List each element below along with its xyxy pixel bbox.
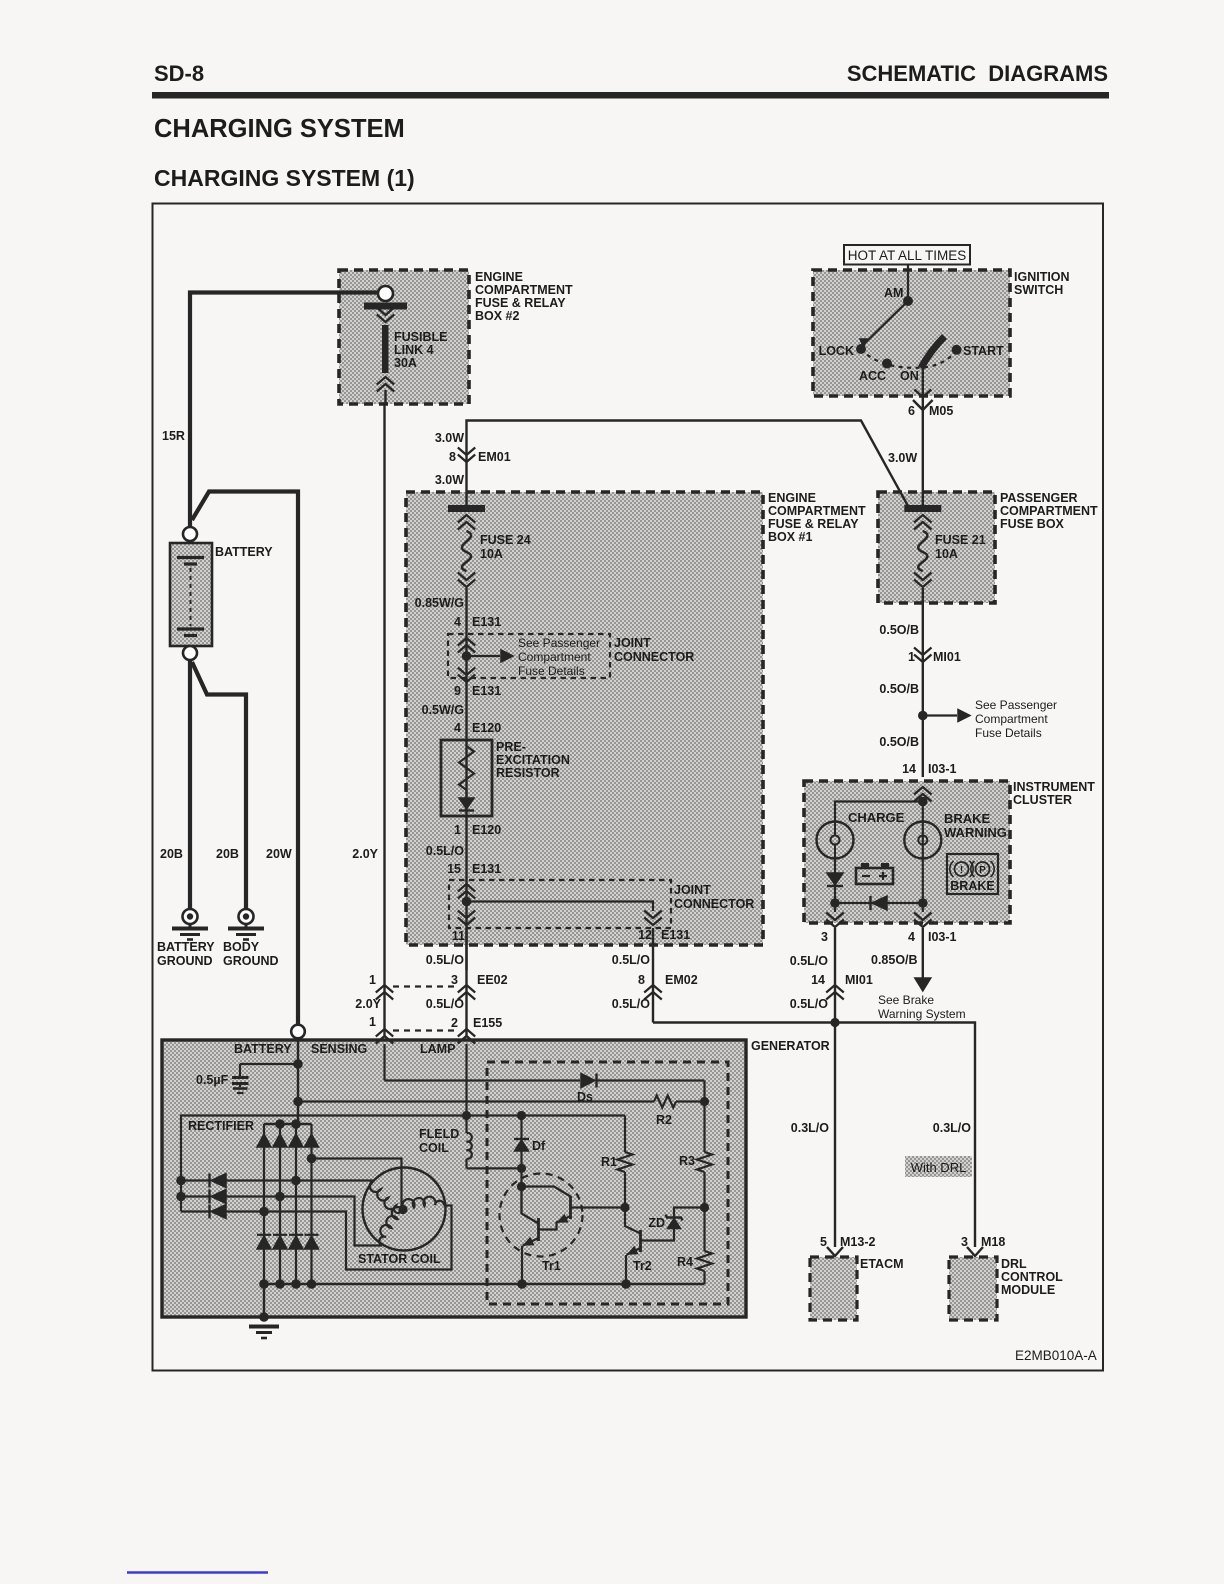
rectifier column 4 bbox=[310, 1124, 312, 1284]
svg-text:12: 12 bbox=[638, 928, 652, 942]
passenger compartment fuse box bbox=[878, 492, 995, 603]
svg-text:0.3L/O: 0.3L/O bbox=[791, 1121, 829, 1135]
ignition switch AM terminal bbox=[884, 286, 913, 306]
transistor Tr1 darlington bbox=[500, 1174, 626, 1285]
svg-text:CHARGING SYSTEM: CHARGING SYSTEM bbox=[154, 115, 405, 143]
node R3 R4 ZD bbox=[700, 1203, 709, 1212]
svg-text:COMPARTMENT: COMPARTMENT bbox=[475, 283, 573, 297]
svg-text:ZD: ZD bbox=[648, 1216, 665, 1230]
rectifier trio diodes bbox=[176, 1174, 226, 1219]
svg-text:0.5L/O: 0.5L/O bbox=[426, 997, 464, 1011]
wire label 2.0Y mid bbox=[352, 847, 378, 861]
svg-text:CONNECTOR: CONNECTOR bbox=[674, 897, 754, 911]
svg-text:BATTERY: BATTERY bbox=[157, 940, 215, 954]
svg-text:With DRL: With DRL bbox=[911, 1160, 967, 1175]
svg-text:GROUND: GROUND bbox=[157, 954, 213, 968]
svg-text:R1: R1 bbox=[601, 1155, 617, 1169]
cluster cross diode bbox=[835, 896, 923, 910]
svg-text:E120: E120 bbox=[472, 823, 501, 837]
hot at all times tag bbox=[844, 245, 970, 265]
svg-text:R3: R3 bbox=[679, 1154, 695, 1168]
node Df top bbox=[517, 1111, 526, 1120]
wire R1 top feed bbox=[624, 1116, 626, 1153]
svg-text:PRE-: PRE- bbox=[496, 740, 526, 754]
svg-text:LOCK: LOCK bbox=[819, 344, 854, 358]
wire label 20B body ground bbox=[216, 847, 239, 861]
svg-text:M18: M18 bbox=[981, 1235, 1005, 1249]
wire label 3.0W lower bbox=[435, 473, 464, 487]
connector E131 pin 9 label bbox=[454, 684, 501, 698]
rectifier ground rail bbox=[259, 1279, 704, 1289]
see brake warning arrow bbox=[915, 978, 931, 991]
svg-text:CONTROL: CONTROL bbox=[1001, 1270, 1063, 1284]
generator label bbox=[751, 1039, 830, 1053]
lamp bus junction node bbox=[830, 1018, 839, 1027]
svg-text:EM01: EM01 bbox=[478, 450, 511, 464]
resistor R4 bbox=[697, 1208, 712, 1285]
fuse 21 label bbox=[935, 533, 986, 561]
ETACM box bbox=[810, 1257, 857, 1320]
ignition switch position arc bbox=[861, 349, 957, 368]
svg-text:P: P bbox=[979, 865, 986, 876]
svg-text:BATTERY: BATTERY bbox=[215, 545, 273, 559]
svg-text:0.85O/B: 0.85O/B bbox=[871, 953, 918, 967]
wire label 0.5W/G bbox=[422, 703, 464, 717]
ignition switch START terminal bbox=[952, 344, 1004, 358]
pre-excitation resistor element bbox=[459, 746, 474, 790]
generator lamp entry chevron bbox=[458, 1036, 475, 1117]
fuse box #1 label bbox=[768, 491, 866, 544]
see brake warning note bbox=[878, 993, 966, 1021]
with DRL tag bbox=[905, 1156, 972, 1177]
svg-text:1: 1 bbox=[369, 973, 376, 987]
wire field coil bottom to Tr1 collector bbox=[467, 1164, 527, 1173]
svg-text:HOT AT ALL TIMES: HOT AT ALL TIMES bbox=[848, 248, 967, 263]
schematic frame bbox=[153, 204, 1104, 1371]
svg-text:RECTIFIER: RECTIFIER bbox=[188, 1119, 254, 1133]
DRL control module label bbox=[1001, 1257, 1063, 1297]
svg-text:0.5L/O: 0.5L/O bbox=[790, 954, 828, 968]
svg-text:STATOR COIL: STATOR COIL bbox=[358, 1252, 441, 1266]
wire stator phase 1 bbox=[226, 1179, 374, 1181]
wire pin 11 to EE02 and E155 lamp wire bbox=[465, 928, 467, 1036]
header rule bbox=[152, 92, 1109, 99]
wire label 0.5L/O under MI01 bbox=[790, 997, 828, 1011]
connector E155 dashed link bbox=[393, 1029, 458, 1031]
transistor Tr1 label bbox=[542, 1259, 561, 1273]
svg-text:EE02: EE02 bbox=[477, 973, 508, 987]
wire fusible link output 2.0Y trunk bbox=[383, 404, 385, 1036]
svg-text:2: 2 bbox=[451, 1016, 458, 1030]
svg-text:COMPARTMENT: COMPARTMENT bbox=[768, 504, 866, 518]
svg-text:E155: E155 bbox=[473, 1016, 502, 1030]
svg-text:Ds: Ds bbox=[577, 1090, 593, 1104]
connector E131 pin 15 label bbox=[447, 862, 501, 876]
ignition switch label bbox=[1014, 270, 1070, 297]
body ground G2 bbox=[228, 909, 264, 940]
svg-text:15R: 15R bbox=[162, 429, 185, 443]
wire label 0.3L/O left bbox=[791, 1121, 829, 1135]
engine compartment fuse and relay box #2 bbox=[339, 270, 469, 404]
joint connector 1 label bbox=[614, 636, 694, 664]
node lamp field junction bbox=[462, 1111, 471, 1120]
transistor Tr2 label bbox=[633, 1259, 652, 1273]
connector M05 chevrons bbox=[913, 390, 933, 411]
wire label 0.5O/B 2 bbox=[879, 682, 919, 696]
svg-text:MODULE: MODULE bbox=[1001, 1283, 1055, 1297]
wire label 20B battery ground bbox=[160, 847, 183, 861]
svg-text:SENSING: SENSING bbox=[311, 1042, 367, 1056]
svg-text:BOX #2: BOX #2 bbox=[475, 309, 520, 323]
wire label 0.5L/O above EM02 turn bbox=[612, 997, 650, 1011]
svg-text:COMPARTMENT: COMPARTMENT bbox=[1000, 504, 1098, 518]
svg-text:4: 4 bbox=[454, 615, 461, 629]
fuse 24 10A bbox=[448, 505, 485, 587]
see passenger branch arrow bbox=[927, 710, 970, 722]
wire capacitor to battery line bbox=[240, 1059, 303, 1069]
ignition switch ACC terminal bbox=[859, 359, 892, 384]
svg-text:FUSIBLE: FUSIBLE bbox=[394, 330, 447, 344]
svg-text:0.3L/O: 0.3L/O bbox=[933, 1121, 971, 1135]
fusible link label bbox=[394, 330, 447, 370]
svg-text:FUSE 24: FUSE 24 bbox=[480, 533, 531, 547]
svg-text:See Brake: See Brake bbox=[878, 993, 934, 1007]
svg-text:!: ! bbox=[960, 865, 963, 876]
svg-text:COIL: COIL bbox=[419, 1141, 449, 1155]
svg-text:FUSE & RELAY: FUSE & RELAY bbox=[768, 517, 859, 531]
fuse box #2 terminal circle bbox=[378, 286, 393, 301]
wire label 0.5L/O below E120 bbox=[426, 844, 464, 858]
svg-text:E131: E131 bbox=[661, 928, 690, 942]
svg-text:2.0Y: 2.0Y bbox=[355, 997, 381, 1011]
svg-text:DRL: DRL bbox=[1001, 1257, 1027, 1271]
fusible link 4 30A bbox=[364, 303, 407, 405]
generator box bbox=[162, 1040, 746, 1317]
charge warning lamp bbox=[817, 822, 854, 859]
see passenger compartment note 1 bbox=[518, 636, 600, 678]
capacitor label 0.5uF bbox=[196, 1073, 229, 1087]
connector EM01 chevrons bbox=[458, 448, 475, 463]
charge lamp diode bbox=[827, 859, 843, 902]
diagram code E2MB010A-A bbox=[1015, 1348, 1097, 1363]
cluster exit chevron pin 3 bbox=[826, 903, 844, 927]
svg-text:BRAKE: BRAKE bbox=[950, 879, 994, 893]
joint connector 1 junction node bbox=[462, 651, 472, 661]
wire stator phase 3 bbox=[226, 1206, 452, 1270]
ignition switch LOCK terminal bbox=[819, 344, 866, 358]
pre-excitation diode bbox=[459, 790, 474, 811]
connector EM02 chevron bbox=[644, 985, 662, 1000]
svg-text:9: 9 bbox=[454, 684, 461, 698]
svg-text:E131: E131 bbox=[472, 615, 501, 629]
svg-text:11: 11 bbox=[452, 929, 465, 943]
connector E120 pin 4 label bbox=[454, 721, 501, 735]
brake warning lamp bbox=[904, 822, 941, 859]
svg-text:30A: 30A bbox=[394, 356, 417, 370]
svg-text:0.5O/B: 0.5O/B bbox=[879, 682, 919, 696]
svg-text:R2: R2 bbox=[656, 1113, 672, 1127]
connector EM01 pin 8 label bbox=[449, 450, 511, 464]
pre-excitation resistor label bbox=[496, 740, 570, 780]
svg-text:E131: E131 bbox=[472, 862, 501, 876]
resistor R3 label bbox=[679, 1154, 695, 1168]
wire label 20W bbox=[266, 847, 292, 861]
page number SD-8 bbox=[154, 61, 204, 86]
stator coil bbox=[363, 1168, 446, 1251]
charge lamp label bbox=[848, 810, 905, 825]
capacitor C1 0.5uF bbox=[232, 1064, 249, 1093]
rectifier phase nodes bbox=[259, 1154, 316, 1217]
scan mark bottom left bbox=[127, 1571, 268, 1573]
wire joint connector 2 branch to pin 12 bbox=[470, 902, 653, 912]
svg-text:BATTERY: BATTERY bbox=[234, 1042, 292, 1056]
svg-text:CHARGING SYSTEM (1): CHARGING SYSTEM (1) bbox=[154, 165, 415, 191]
cluster feed node bbox=[918, 797, 928, 807]
brake warning label bbox=[944, 811, 1007, 840]
svg-text:ENGINE: ENGINE bbox=[768, 491, 816, 505]
voltage regulator dashed box bbox=[487, 1062, 728, 1304]
joint connector 1 exit chevron bbox=[458, 668, 475, 683]
field coil bbox=[467, 1116, 472, 1169]
resistor R4 label bbox=[677, 1255, 693, 1269]
rectifier label bbox=[188, 1119, 254, 1133]
wire label 0.85O/B bbox=[871, 953, 918, 967]
svg-text:10A: 10A bbox=[935, 547, 958, 561]
svg-text:ETACM: ETACM bbox=[860, 1257, 904, 1271]
battery positive terminal bbox=[183, 527, 197, 541]
wire hot feed to ignition switch AM bbox=[907, 265, 909, 300]
generator internal ground bbox=[249, 1284, 279, 1338]
wire cluster node down to brake lamp bbox=[922, 802, 924, 904]
wire label 0.5L/O under pin 11 bbox=[426, 953, 464, 967]
svg-text:CLUSTER: CLUSTER bbox=[1013, 793, 1072, 807]
svg-text:IGNITION: IGNITION bbox=[1014, 270, 1070, 284]
svg-text:ACC: ACC bbox=[859, 369, 886, 383]
svg-text:3: 3 bbox=[821, 930, 828, 944]
svg-text:1: 1 bbox=[454, 823, 461, 837]
wire generator B vertical bbox=[297, 1038, 299, 1124]
svg-text:0.5O/B: 0.5O/B bbox=[879, 735, 919, 749]
rectifier positive diodes bbox=[257, 1134, 319, 1147]
svg-text:R4: R4 bbox=[677, 1255, 693, 1269]
svg-text:3: 3 bbox=[961, 1235, 968, 1249]
svg-text:2.0Y: 2.0Y bbox=[352, 847, 378, 861]
joint connector 2 exit chevron pin 12 bbox=[644, 911, 662, 926]
svg-text:I03-1: I03-1 bbox=[928, 762, 957, 776]
joint connector 1 entry chevron bbox=[458, 638, 475, 653]
svg-text:M05: M05 bbox=[929, 404, 953, 418]
svg-text:6: 6 bbox=[908, 404, 915, 418]
joint connector 2 exit chevron pin 11 bbox=[458, 911, 475, 926]
svg-text:0.5L/O: 0.5L/O bbox=[426, 953, 464, 967]
stator coil label bbox=[358, 1252, 441, 1266]
wire label 0.5L/O under pin 3 bbox=[790, 954, 828, 968]
svg-text:Compartment: Compartment bbox=[518, 650, 591, 664]
instrument cluster box bbox=[804, 781, 1010, 923]
transistor Tr2 bbox=[625, 1208, 642, 1285]
joint connector 1 box bbox=[448, 634, 610, 678]
wire ignition feed rail to fuse 24 and fuse 21 bbox=[467, 421, 909, 507]
svg-text:14: 14 bbox=[811, 973, 825, 987]
rectifier positive bar bbox=[264, 1119, 312, 1129]
wire label 3.0W upper bbox=[435, 431, 464, 445]
brake telltale box bbox=[947, 854, 998, 894]
svg-text:4: 4 bbox=[454, 721, 461, 735]
wire sense resistor line R2 rail bbox=[293, 1097, 654, 1107]
wire battery negative to battery ground (20B) bbox=[188, 660, 192, 909]
svg-text:4: 4 bbox=[908, 930, 915, 944]
field coil label bbox=[419, 1127, 459, 1155]
subtitle CHARGING SYSTEM (1) bbox=[154, 165, 415, 191]
svg-text:MI01: MI01 bbox=[845, 973, 873, 987]
svg-text:0.5O/B: 0.5O/B bbox=[879, 623, 919, 637]
svg-text:20W: 20W bbox=[266, 847, 292, 861]
svg-text:SD-8: SD-8 bbox=[154, 61, 204, 86]
cluster entry chevron pin 14 bbox=[914, 787, 932, 802]
wire battery positive to fusible link (15R) bbox=[190, 293, 378, 528]
svg-text:LINK 4: LINK 4 bbox=[394, 343, 434, 357]
wire cluster pin 3 to MI01 pin 14 bbox=[834, 928, 836, 1023]
resistor R1 bbox=[618, 1152, 633, 1208]
title CHARGING SYSTEM bbox=[154, 115, 405, 143]
svg-text:20B: 20B bbox=[160, 847, 183, 861]
zener diode ZD bbox=[642, 1208, 705, 1241]
connector EE02 pin 3 chevron bbox=[458, 985, 475, 1000]
svg-text:INSTRUMENT: INSTRUMENT bbox=[1013, 780, 1095, 794]
ignition switch box bbox=[813, 270, 1010, 396]
svg-text:3.0W: 3.0W bbox=[888, 451, 917, 465]
svg-text:0.5µF: 0.5µF bbox=[196, 1073, 229, 1087]
svg-text:0.5L/O: 0.5L/O bbox=[790, 997, 828, 1011]
wire label 0.85W/G bbox=[415, 596, 464, 610]
svg-text:ON: ON bbox=[900, 369, 919, 383]
node Tr1 emitter ground bbox=[517, 1279, 527, 1289]
svg-text:GENERATOR: GENERATOR bbox=[751, 1039, 830, 1053]
svg-text:See Passenger: See Passenger bbox=[518, 636, 600, 650]
ignition switch ON label bbox=[900, 369, 919, 383]
fuse box #2 label bbox=[475, 270, 573, 323]
DRL entry fork bbox=[967, 1247, 983, 1256]
connector E155 labels bbox=[369, 1015, 502, 1030]
svg-text:3.0W: 3.0W bbox=[435, 431, 464, 445]
svg-text:BODY: BODY bbox=[223, 940, 260, 954]
svg-text:EXCITATION: EXCITATION bbox=[496, 753, 570, 767]
connector EM02 pin 8 label bbox=[638, 973, 698, 987]
diode Df bbox=[514, 1116, 529, 1214]
wire fuse 24 output bbox=[465, 588, 467, 970]
svg-text:FUSE BOX: FUSE BOX bbox=[1000, 517, 1065, 531]
svg-text:M13-2: M13-2 bbox=[840, 1235, 875, 1249]
joint connector 2 junction node bbox=[462, 897, 472, 907]
wire sensing to Ds line bbox=[385, 1081, 705, 1102]
diode Ds bbox=[581, 1074, 597, 1088]
joint connector 2 label bbox=[674, 883, 754, 911]
wire field node to regulator bbox=[467, 1114, 626, 1116]
svg-text:CONNECTOR: CONNECTOR bbox=[614, 650, 694, 664]
svg-text:E2MB010A-A: E2MB010A-A bbox=[1015, 1348, 1097, 1363]
wire pin 12 to EM02 bbox=[652, 928, 654, 1023]
resistor R1 label bbox=[601, 1155, 617, 1169]
generator B terminal bbox=[291, 1025, 305, 1039]
svg-text:PASSENGER: PASSENGER bbox=[1000, 491, 1078, 505]
generator terminal labels bbox=[234, 1042, 455, 1056]
wire battery negative to body ground (20B) bbox=[192, 662, 246, 909]
rectifier trio output rail bbox=[181, 1116, 467, 1212]
rectifier column 1 bbox=[263, 1124, 265, 1284]
svg-text:Df: Df bbox=[532, 1139, 546, 1153]
connector E120 pin 1 label bbox=[454, 823, 501, 837]
battery ground label bbox=[157, 940, 215, 968]
svg-text:Fuse Details: Fuse Details bbox=[518, 664, 585, 678]
svg-text:START: START bbox=[963, 344, 1004, 358]
joint connector 1 see passenger arrow bbox=[470, 650, 513, 662]
wire stator phase 2 bbox=[226, 1197, 382, 1246]
svg-text:Compartment: Compartment bbox=[975, 712, 1048, 726]
svg-text:10A: 10A bbox=[480, 547, 503, 561]
joint connector 2 box bbox=[449, 880, 671, 928]
svg-text:Tr1: Tr1 bbox=[542, 1259, 561, 1273]
svg-text:BRAKE: BRAKE bbox=[944, 811, 991, 826]
battery label bbox=[215, 545, 273, 559]
resistor R2 label bbox=[656, 1113, 672, 1127]
wire label 2.0Y lower bbox=[355, 997, 381, 1011]
see passenger compartment note 2 bbox=[975, 698, 1057, 740]
wire label 0.5O/B 3 bbox=[879, 735, 919, 749]
svg-text:SCHEMATIC DIAGRAMS: SCHEMATIC DIAGRAMS bbox=[847, 61, 1108, 86]
svg-text:3: 3 bbox=[451, 973, 458, 987]
connector E131 pin 4 label bbox=[454, 615, 501, 629]
wire stator neutral bbox=[312, 1159, 402, 1207]
fuse 21 10A bbox=[904, 505, 941, 587]
svg-text:3.0W: 3.0W bbox=[435, 473, 464, 487]
connector EE02 labels bbox=[369, 973, 508, 987]
svg-text:JOINT: JOINT bbox=[614, 636, 651, 650]
wire ignition ON output to M05 bbox=[922, 368, 924, 506]
svg-text:WARNING: WARNING bbox=[944, 825, 1007, 840]
svg-text:EM02: EM02 bbox=[665, 973, 698, 987]
svg-text:AM: AM bbox=[884, 286, 903, 300]
connector MI01 pin 14 chevrons bbox=[826, 985, 844, 1000]
wire lamp bus EM02 to ETACM and DRL bbox=[653, 1023, 975, 1248]
wire cluster node to charge lamp bbox=[835, 802, 923, 823]
connector E155 pin 2 chevron bbox=[458, 1029, 475, 1044]
wire fuse 21 output to instrument cluster bbox=[922, 588, 924, 777]
battery BAT1 bbox=[170, 543, 212, 646]
connector MI01 pin 14 label bbox=[811, 973, 873, 987]
node Tr2 emitter ground bbox=[621, 1279, 631, 1289]
diode Ds label bbox=[577, 1090, 593, 1104]
svg-text:0.5L/O: 0.5L/O bbox=[612, 997, 650, 1011]
wire label 15R bbox=[162, 429, 185, 443]
wire battery positive to generator B terminal (20W) bbox=[192, 492, 298, 1027]
rectifier column 3 bbox=[295, 1124, 297, 1284]
svg-text:Tr2: Tr2 bbox=[633, 1259, 652, 1273]
zener diode label bbox=[648, 1216, 665, 1230]
connector M05 pin 6 label bbox=[908, 404, 953, 418]
svg-text:RESISTOR: RESISTOR bbox=[496, 766, 560, 780]
cluster lower right node bbox=[918, 898, 928, 908]
svg-text:1: 1 bbox=[908, 650, 915, 664]
cluster lower left node bbox=[830, 898, 840, 908]
connector MI01 pin 1 label bbox=[908, 650, 961, 664]
generator sensing entry chevron bbox=[376, 1036, 393, 1081]
ignition switch blade contact bbox=[921, 337, 945, 369]
passenger compartment fuse box label bbox=[1000, 491, 1098, 531]
svg-text:MI01: MI01 bbox=[933, 650, 961, 664]
svg-text:5: 5 bbox=[820, 1235, 827, 1249]
cluster exit chevron pin 4 bbox=[914, 903, 932, 927]
svg-text:14: 14 bbox=[902, 762, 916, 776]
